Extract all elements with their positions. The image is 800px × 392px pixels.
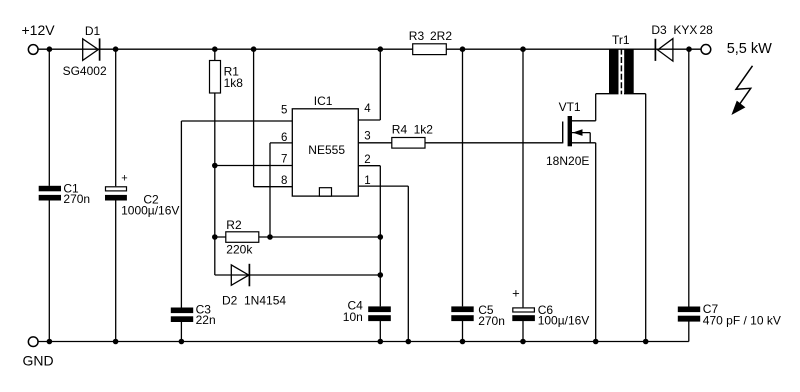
svg-text:5: 5	[281, 104, 287, 116]
svg-text:+: +	[512, 285, 520, 300]
svg-text:270n: 270n	[478, 314, 505, 328]
svg-text:1: 1	[364, 175, 370, 187]
svg-text:7: 7	[281, 154, 287, 166]
svg-text:IC1: IC1	[314, 94, 333, 108]
svg-text:+: +	[121, 172, 127, 184]
svg-text:1k8: 1k8	[224, 76, 244, 90]
svg-text:Tr1: Tr1	[612, 33, 630, 47]
svg-text:R2: R2	[226, 218, 242, 232]
svg-text:18N20E: 18N20E	[546, 154, 589, 168]
svg-text:100µ/16V: 100µ/16V	[538, 314, 590, 328]
svg-text:2R2: 2R2	[430, 29, 452, 43]
svg-text:KYX: KYX	[673, 23, 697, 37]
svg-text:8: 8	[281, 175, 287, 187]
svg-text:R4: R4	[392, 122, 408, 136]
svg-text:R3: R3	[409, 29, 425, 43]
svg-text:D1: D1	[85, 24, 101, 38]
svg-text:2: 2	[364, 154, 370, 166]
svg-text:NE555: NE555	[308, 143, 345, 157]
svg-text:10n: 10n	[343, 310, 363, 324]
svg-text:1000µ/16V: 1000µ/16V	[121, 203, 179, 217]
svg-text:6: 6	[281, 132, 287, 144]
svg-text:SG4002: SG4002	[63, 64, 107, 78]
svg-text:22n: 22n	[196, 313, 216, 327]
svg-text:1k2: 1k2	[414, 122, 434, 136]
svg-text:3: 3	[364, 131, 370, 143]
svg-text:4: 4	[364, 103, 371, 115]
svg-text:470 pF / 10 kV: 470 pF / 10 kV	[703, 314, 781, 328]
svg-text:D3: D3	[651, 23, 667, 37]
svg-text:VT1: VT1	[559, 100, 581, 114]
svg-text:D2: D2	[222, 294, 238, 308]
svg-text:GND: GND	[23, 353, 54, 369]
svg-text:1N4154: 1N4154	[244, 294, 286, 308]
svg-text:28: 28	[700, 23, 714, 37]
svg-text:5,5 kW: 5,5 kW	[727, 41, 772, 57]
svg-text:270n: 270n	[63, 192, 90, 206]
svg-text:220k: 220k	[226, 242, 253, 256]
svg-text:+12V: +12V	[22, 22, 56, 38]
